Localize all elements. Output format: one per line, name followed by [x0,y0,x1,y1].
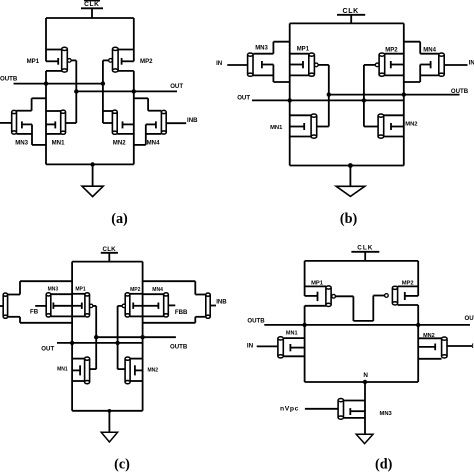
svg-text:INB: INB [187,117,198,124]
node OUTB-MP1gate junction (b) [327,92,331,96]
svg-text:MN1: MN1 [57,366,68,372]
svg-text:OUT: OUT [237,94,250,101]
wire N tail rail (d) [305,381,419,383]
transistor MN1 (d) [278,337,305,358]
label IN (b) [216,60,222,67]
wire right main vertical (c) [142,262,144,411]
label OUTB (b) [451,88,469,95]
wire MP2 source/gate column (a) [133,18,135,61]
node OUTB-right junction (b) [402,92,406,96]
wire MN3 source path (b) [253,65,290,83]
transistor MN3 (a) [12,110,32,134]
wire MP1 drain to OUTB (a) [46,71,62,84]
svg-text:MP1: MP1 [311,280,324,286]
svg-text:MN3: MN3 [15,139,28,146]
clock input CLK (c) [101,246,118,262]
wire MN3 drain branch (b) [253,42,289,54]
svg-text:MN4: MN4 [147,139,160,146]
ground (b) [336,166,365,197]
wire MP2 gate-bubble vertical to OUTB node (a) [102,60,104,123]
label N (d) [363,372,368,379]
svg-text:MN1: MN1 [286,331,298,337]
wire MN2 column (d) [417,325,419,382]
wire far-right input source path (c) [143,317,206,323]
transistor MP1 (d) [305,286,354,307]
wire left main vertical (b) [289,23,291,165]
wire N to MN3 (d) [364,382,366,434]
label (d) [375,457,393,473]
VDD rail (b) [290,22,404,24]
wire far-left input drain branch (c) [7,281,72,294]
wire MP1 drain to OUTB (d) [304,306,306,325]
transistor MN2 (c) [118,357,143,384]
svg-text:(b): (b) [340,211,358,227]
svg-text:OUTB: OUTB [0,76,18,83]
svg-text:MN1: MN1 [270,125,283,131]
node OUTB-MP1 junction (a) [44,81,48,85]
node OUT-MP2gate junction (b) [362,98,366,102]
clock input CLK (circuit a) [81,1,103,18]
transistor MN3 (b) [248,53,274,76]
label MN2 (d) [423,333,435,339]
svg-text:MN3: MN3 [48,286,59,292]
svg-text:OUTB: OUTB [170,344,188,351]
wire far-left input source path (c) [7,317,72,323]
wire left main vertical OUTB column (a) [45,84,47,165]
svg-text:MN4: MN4 [152,287,163,293]
transistor MN1 (b) [290,114,329,138]
label OUT right edge (d) [465,315,474,322]
ground (c) [101,411,117,442]
wire MP1 gate-bubble vertical (b) [328,65,330,127]
wire MN2 gate to right edge (d) [447,345,472,347]
node tail-ground junction (a) [90,162,94,166]
node OUTB-right junction (c) [140,335,144,339]
svg-text:OUT: OUT [465,315,474,322]
clock input CLK (d) [351,245,379,261]
transistor MN4 (a) [146,110,166,134]
node OUT-left junction (c) [70,341,74,345]
node OUTB-MP1gate junction (c) [94,335,98,339]
node OUTB-MP2gate junction (a) [101,81,105,85]
wire MN4 gate to IN (b) [444,64,467,66]
label FB (c) [30,308,39,315]
VDD rail (c) [72,261,143,263]
svg-text:MN2: MN2 [148,368,159,374]
label MN3 (d) [380,411,393,417]
svg-text:(c): (c) [114,456,130,472]
svg-text:MP2: MP2 [385,47,398,53]
label MN3 (c) [48,286,59,292]
svg-text:OUT: OUT [170,83,183,90]
svg-text:(a): (a) [111,211,128,227]
clock input CLK (b) [337,8,365,23]
wire left main vertical (c) [71,262,73,411]
transistor far-left input (c) [3,293,7,318]
wire MP1 source/gate column (d) [304,261,306,296]
label MN3 (a) [15,139,28,146]
wire MN4 drain branch (a) [134,98,162,110]
label MN1 (c) [57,366,68,372]
wire MP1 gate-bubble vertical to OUT node (a) [75,60,77,123]
label IN right edge (d) [472,343,474,350]
wire MN4 source path (a) [134,124,162,144]
label (a) [111,211,128,227]
label MN3 (b) [255,46,268,52]
node OUTB-MN1 junction (d) [302,323,306,327]
svg-text:nVpc: nVpc [280,406,299,413]
svg-text:IN: IN [469,60,474,67]
wire MN4 gate to FBB (c) [168,304,175,306]
svg-text:FBB: FBB [175,309,188,316]
wire right main vertical OUT column (a) [133,91,135,164]
label (c) [114,456,130,472]
transistor far-right input (c) [206,293,210,318]
wire bottom tail rail (a) [46,163,134,165]
transistor MP2 (a) [103,47,134,72]
transistor MN2 (d) [418,337,447,359]
svg-text:FB: FB [30,308,39,315]
svg-text:MN3: MN3 [380,411,393,417]
VDD rail (a) [46,17,134,19]
wire OUTB line (b) [329,94,460,96]
svg-text:MP2: MP2 [130,287,141,293]
svg-text:CLK: CLK [84,1,99,8]
wire FB to MN3 gate (c) [35,305,46,307]
svg-text:MP2: MP2 [402,280,414,286]
label MN4 (a) [147,139,160,146]
wire MP2 drain to OUT (a) [118,71,134,92]
transistor MN4 (b) [420,53,444,76]
wire MN4 source path (b) [404,65,439,83]
transistor MP1 (c) [72,293,96,317]
wire input IN to MN3 gate (a) [0,122,12,124]
wire OUTB line (d) [264,324,470,326]
label MP2 (a) [140,58,153,65]
label (b) [340,211,358,227]
node OUT-MP2gate junction (c) [115,341,119,345]
wire OUTB line (c) [96,336,176,338]
transistor MN1 (a) [46,110,76,134]
label INB (a) [187,117,198,124]
svg-text:OUTB: OUTB [451,88,469,95]
wire MP1 gate-bubble vertical (c) [95,306,97,369]
wire MN4 drain branch (b) [404,42,439,54]
label MN4 (b) [423,47,436,53]
svg-text:MN2: MN2 [423,333,435,339]
wire MP2 drain to OUTB (d) [417,305,419,325]
label MP1 (c) [75,286,86,292]
label nVpc (d) [280,406,299,413]
wire MN3 source path (a) [17,124,47,144]
svg-text:CLK: CLK [103,246,117,253]
svg-text:MP2: MP2 [140,58,153,65]
wire MN1 column (d) [304,325,306,382]
node OUT-left junction (b) [288,98,292,102]
wire OUT line (a) [76,90,177,92]
label INB (c) [216,299,227,306]
label IN right edge (b) [469,60,474,67]
label MN2 (c) [148,368,159,374]
wire input IN to MN3 gate (b) [227,64,247,66]
label MN4 (c) [152,287,163,293]
label OUTB (a) [0,76,18,83]
svg-text:MN2: MN2 [405,121,417,127]
svg-text:IN: IN [216,60,222,67]
svg-text:OUTB: OUTB [247,317,265,324]
node tail-ground junction (c) [108,409,112,413]
label MN1 (b) [270,125,283,131]
wire OUT line (b) [252,99,404,101]
wire bottom tail rail (c) [72,410,143,412]
label IN (d) [247,343,254,350]
svg-text:MP1: MP1 [297,47,310,53]
node OUT-MN2 junction (d) [416,323,420,327]
ground (d) [356,434,373,443]
wire OUTB line (a) [14,83,103,85]
label MN2 (a) [113,139,126,146]
label OUTB (c) [170,344,188,351]
transistor MP2 (d) [373,286,418,305]
wire MP2 gate-bubble vertical (c) [117,306,119,369]
svg-text:(d): (d) [375,457,393,473]
wire cross-coupling jog (d) [353,296,373,321]
wire MP2 gate-bubble vertical (b) [363,65,365,127]
svg-text:MP1: MP1 [27,58,40,65]
transistor MP1 (b) [290,53,329,76]
wire MN4 gate to INB (a) [166,122,186,124]
wire OUT line (c) [57,342,143,344]
transistor MP2 (b) [364,53,404,76]
svg-text:MN2: MN2 [113,139,126,146]
node tail-ground junction (b) [348,163,353,168]
transistor MN2 (b) [364,114,404,138]
label MP2 (b) [385,47,398,53]
wire MN3 drain branch (a) [16,98,46,110]
wire right main vertical (b) [403,23,405,165]
label OUT (b) [237,94,250,101]
svg-text:INB: INB [216,299,227,306]
wire bottom tail rail (b) [290,165,404,167]
svg-text:N: N [363,372,368,379]
label OUT (a) [170,83,183,90]
svg-text:MN4: MN4 [423,47,436,53]
VDD rail (d) [305,260,419,262]
transistor MN3 (c) [46,293,72,317]
svg-text:IN: IN [247,343,254,350]
label OUT (c) [41,346,54,353]
wire MP2 source/gate column (d) [417,261,419,296]
label MN1 (a) [52,139,65,146]
label MN2 (b) [405,121,417,127]
node N junction (d) [363,380,367,384]
transistor MN2 (a) [103,110,134,134]
label MP1 (d) [311,280,324,286]
label FBB (c) [175,309,188,316]
node OUT-MP2 junction (a) [132,89,136,93]
transistor MN1 (c) [72,357,96,384]
label MP1 (b) [297,47,310,53]
wire far-left input gate (c) [0,305,3,307]
ground (a) [82,164,103,196]
label MN1 (d) [286,331,298,337]
transistor MP1 (a) [46,47,76,72]
svg-text:CLK: CLK [357,245,373,252]
svg-text:MP1: MP1 [75,286,86,292]
wire far-right input drain branch (c) [143,281,206,294]
label OUTB (d) [247,317,265,324]
svg-text:MN3: MN3 [255,46,268,52]
wire far-right input gate to INB (c) [211,305,217,307]
label MP2 (d) [402,280,414,286]
wire MP1 source/gate column (a) [45,18,47,61]
svg-text:OUT: OUT [41,346,54,353]
label MP1 (a) [27,58,40,65]
wire IN to MN1 gate (d) [257,345,278,347]
wire nVpc to MN3 gate (d) [305,408,338,410]
svg-text:MN1: MN1 [52,139,65,146]
transistor MN4 (c) [143,293,169,317]
label MP2 (c) [130,287,141,293]
transistor MN3 (d) [338,399,365,420]
node OUT-MP1gate junction (a) [74,89,78,93]
transistor MP2 (c) [118,293,143,317]
